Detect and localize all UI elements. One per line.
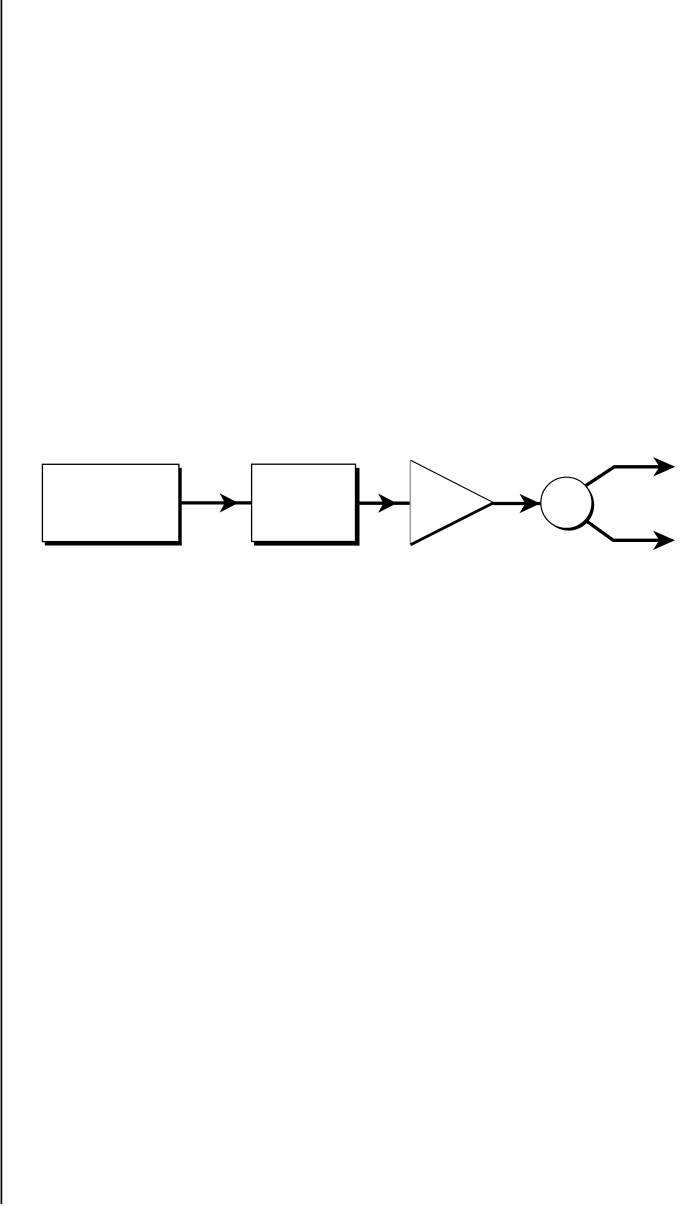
block 1 shadow — [45, 468, 182, 546]
block 2 — [252, 464, 356, 541]
wire: amplifier to node — [493, 502, 540, 505]
wire: node to lower output (diagonal) — [564, 503, 668, 541]
block 2 shadow — [254, 468, 360, 546]
arrowhead on wire to amplifier — [378, 494, 397, 513]
node (summing circle) — [541, 477, 592, 528]
change bar (left margin rule) — [1, 0, 3, 1204]
wire: node to upper output (diagonal) — [564, 467, 668, 503]
arrowhead on wire to block 2 — [220, 493, 239, 512]
arrowhead lower output — [653, 531, 675, 550]
amplifier (triangle) — [410, 460, 493, 544]
wire: block 2 to amplifier — [358, 502, 411, 505]
node shadow — [543, 479, 594, 530]
block 1 — [42, 464, 179, 541]
arrowhead on wire to node — [519, 494, 540, 513]
wire: block 1 to block 2 — [180, 501, 252, 504]
arrowhead upper output — [653, 457, 675, 476]
